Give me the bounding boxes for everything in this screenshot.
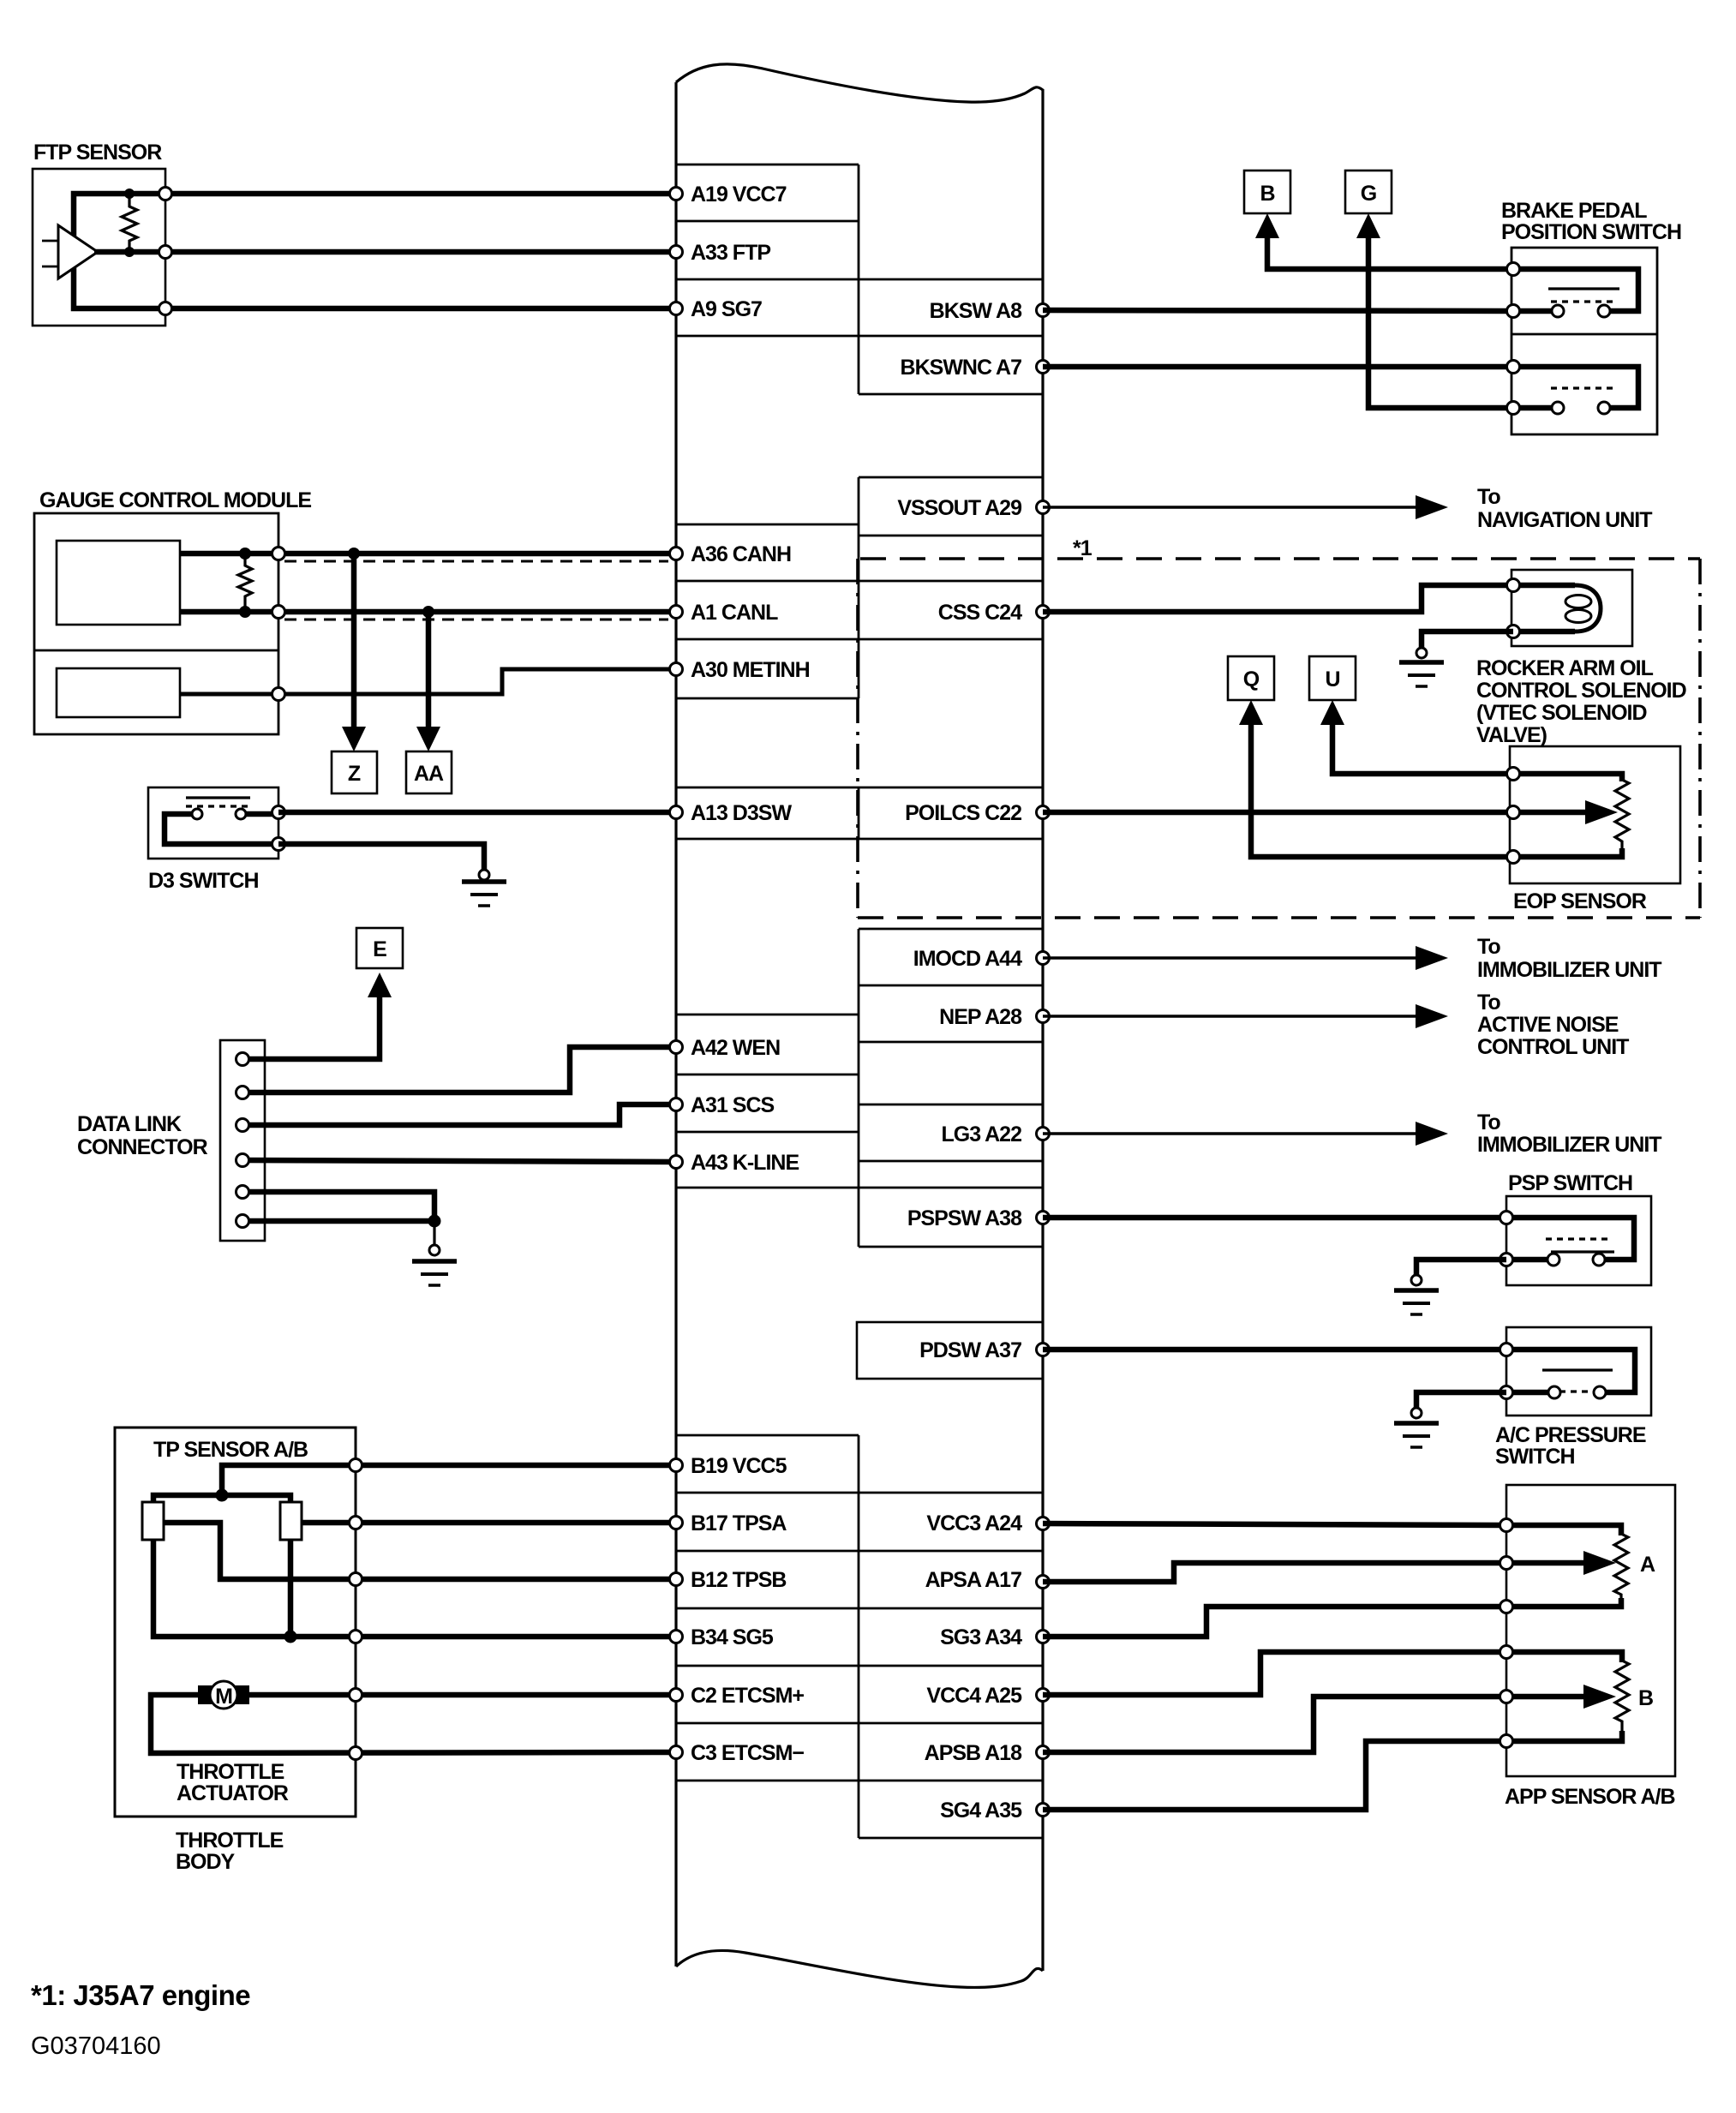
brake pedal position switch box — [1512, 248, 1657, 434]
ECM connector band outline — [676, 64, 1043, 1988]
svg-text:ACTIVE NOISE: ACTIVE NOISE — [1477, 1013, 1619, 1037]
wire A1 CANL — [180, 609, 676, 615]
dash-dot J35A7 region left edge — [856, 559, 859, 918]
svg-text:NAVIGATION UNIT: NAVIGATION UNIT — [1477, 508, 1652, 532]
arrowhead AA — [416, 727, 440, 751]
arrowhead Z — [342, 727, 366, 751]
FTP sensor internal loop wire — [74, 194, 165, 308]
arrowhead NEP — [1416, 1004, 1448, 1028]
connector E box — [356, 928, 403, 968]
wire PSP switch to ground — [1416, 1260, 1506, 1275]
op-amp input leads — [42, 241, 57, 266]
svg-text:B12 TPSB: B12 TPSB — [691, 1568, 786, 1592]
To IMMOBILIZER UNIT label (LG3) — [1477, 1110, 1661, 1157]
throttle actuator motor M — [198, 1681, 249, 1709]
arrowhead G — [1356, 213, 1380, 238]
wire B12 TPSB internal — [164, 1523, 676, 1579]
svg-text:SG3 A34: SG3 A34 — [940, 1625, 1022, 1649]
svg-text:TP SENSOR A/B: TP SENSOR A/B — [153, 1438, 308, 1462]
rocker arm oil control solenoid box — [1512, 570, 1632, 646]
svg-text:U: U — [1325, 667, 1339, 691]
svg-text:A43 K-LINE: A43 K-LINE — [691, 1151, 799, 1175]
svg-text:LG3 A22: LG3 A22 — [941, 1122, 1021, 1146]
svg-text:NEP A28: NEP A28 — [939, 1005, 1022, 1029]
connector AA box — [406, 751, 452, 793]
wire B17 TPSA — [302, 1520, 676, 1526]
wire CSS C24 — [1043, 585, 1513, 612]
svg-text:A36 CANH: A36 CANH — [691, 542, 791, 566]
svg-text:EOP SENSOR: EOP SENSOR — [1513, 889, 1647, 913]
svg-text:BKSW A8: BKSW A8 — [930, 299, 1022, 323]
solenoid coil — [1513, 585, 1601, 632]
arrowhead Q — [1239, 700, 1263, 725]
dashed CANH (J35A7) — [284, 560, 668, 563]
wire A19 VCC7 — [165, 191, 676, 197]
gauge module pins — [272, 548, 285, 560]
wire to G connector — [1368, 231, 1513, 408]
wire POILCS C22 — [1043, 810, 1510, 816]
svg-text:CONTROL SOLENOID: CONTROL SOLENOID — [1476, 679, 1686, 703]
svg-text:VALVE): VALVE) — [1476, 723, 1547, 747]
wire IMOCD A44 — [1043, 956, 1422, 960]
ground (D3 switch) — [462, 870, 506, 906]
svg-text:PDSW A37: PDSW A37 — [919, 1338, 1021, 1362]
APP potentiometer A — [1506, 1525, 1655, 1607]
svg-text:ACTUATOR: ACTUATOR — [177, 1781, 289, 1805]
PSP switch internals — [1506, 1218, 1634, 1266]
svg-text:PSPSW A38: PSPSW A38 — [907, 1206, 1022, 1230]
FTP sensor pins — [159, 188, 172, 201]
EOP potentiometer — [1510, 774, 1629, 857]
TP sensor top rail — [153, 1495, 290, 1505]
svg-text:B: B — [1260, 182, 1274, 206]
dashed J35A7 region top edge — [860, 557, 1700, 560]
ground (solenoid) — [1399, 648, 1444, 686]
svg-text:IMOCD A44: IMOCD A44 — [913, 947, 1022, 971]
wire A13 D3SW — [278, 810, 676, 816]
svg-text:To: To — [1477, 935, 1500, 959]
ECM pin box grid group 2 (VSSOUT/A36/A1/CSS/A30) — [676, 477, 1043, 698]
brake switch 2 internals — [1513, 367, 1638, 414]
FTP sensor op-amp triangle — [58, 225, 98, 278]
wire A31 SCS — [242, 1104, 676, 1125]
svg-text:B: B — [1638, 1686, 1653, 1710]
wire BKSW A8 — [1043, 310, 1513, 311]
EOP sensor box — [1510, 746, 1680, 883]
dashed J35A7 region bottom edge — [858, 916, 1700, 919]
wire A36 CANH — [180, 551, 676, 557]
wire A/C switch to ground — [1416, 1392, 1506, 1408]
wire B19 VCC5 internal — [222, 1465, 676, 1495]
arrowhead U — [1320, 700, 1344, 725]
svg-text:BODY: BODY — [176, 1850, 236, 1874]
svg-text:THROTTLE: THROTTLE — [176, 1829, 284, 1853]
ECM pin box grid group 3 (A13/POILCS) — [676, 787, 1043, 839]
ECM pin labels right column — [897, 299, 1022, 1823]
PSP switch box — [1506, 1196, 1651, 1285]
svg-text:E: E — [373, 937, 386, 961]
connector Z box — [332, 751, 377, 793]
svg-text:A30 METINH: A30 METINH — [691, 658, 810, 682]
data link connector box — [220, 1040, 265, 1241]
gauge module inner box 1 — [57, 541, 180, 625]
wire SG4 A35 — [1043, 1741, 1506, 1810]
wire to Z connector — [351, 554, 357, 730]
wire VCC4 A25 — [1043, 1652, 1506, 1695]
svg-text:*1: J35A7 engine: *1: J35A7 engine — [31, 1979, 250, 2011]
svg-text:IMMOBILIZER UNIT: IMMOBILIZER UNIT — [1477, 958, 1661, 982]
svg-text:DATA LINK: DATA LINK — [77, 1112, 182, 1136]
arrowhead IMOCD — [1416, 946, 1448, 970]
D3 switch box — [148, 787, 278, 859]
To ACTIVE NOISE CONTROL UNIT label — [1477, 991, 1629, 1059]
A/C PRESSURE SWITCH label — [1495, 1423, 1646, 1469]
arrowhead B — [1255, 213, 1279, 238]
arrowhead VSSOUT — [1416, 495, 1448, 519]
svg-text:CONTROL UNIT: CONTROL UNIT — [1477, 1035, 1629, 1059]
svg-text:G: G — [1361, 182, 1376, 206]
wire A30 METINH — [180, 669, 676, 694]
brake switch 1 internals — [1513, 269, 1638, 317]
svg-text:SG4 A35: SG4 A35 — [940, 1799, 1022, 1823]
ECM pin labels left column — [691, 183, 810, 1765]
svg-text:BRAKE PEDAL: BRAKE PEDAL — [1501, 199, 1647, 223]
svg-text:C2 ETCSM+: C2 ETCSM+ — [691, 1684, 804, 1708]
wire to B connector — [1267, 231, 1513, 269]
dash-dot J35A7 region right edge — [1698, 559, 1702, 918]
wire A42 WEN — [242, 1047, 676, 1092]
ECM pin box grid group 5 (PDSW A37) — [857, 1322, 1043, 1379]
wire BKSWNC A7 — [1043, 364, 1513, 370]
ECM right edge pins — [1037, 304, 1050, 1817]
svg-text:To: To — [1477, 485, 1500, 509]
wire A43 K-LINE — [242, 1160, 676, 1162]
svg-text:A33 FTP: A33 FTP — [691, 241, 770, 265]
wire to AA connector — [426, 612, 432, 730]
gauge module inner box 2 — [57, 668, 180, 717]
DLC ground branch wires — [242, 1192, 434, 1221]
svg-text:M: M — [215, 1685, 232, 1709]
wire APSB A18 — [1043, 1697, 1506, 1752]
APP potentiometer B — [1506, 1652, 1653, 1741]
TP sensor element A — [142, 1502, 164, 1540]
svg-text:Z: Z — [348, 762, 361, 786]
dashed CANL (J35A7) — [284, 619, 668, 621]
wire D3 switch to ground — [278, 844, 484, 870]
wire EOP to Q connector — [1251, 720, 1513, 857]
ground (A/C switch) — [1394, 1408, 1439, 1447]
connector U box — [1309, 656, 1356, 700]
wire PDSW A37 — [1043, 1347, 1506, 1353]
wire DLC to E connector — [242, 994, 380, 1059]
svg-text:A13 D3SW: A13 D3SW — [691, 801, 792, 825]
wire A9 SG7 — [165, 306, 676, 312]
FTP internal resistor — [122, 194, 137, 252]
ECM pin box grid group 1 (A19/A33/A9 + BKSW/BKSWNC) — [676, 165, 1043, 394]
connector Q box — [1228, 656, 1274, 700]
wire C2 ETCSM+ — [249, 1692, 676, 1698]
svg-text:PSP SWITCH: PSP SWITCH — [1508, 1171, 1632, 1195]
svg-text:Q: Q — [1243, 667, 1260, 691]
svg-text:VCC3 A24: VCC3 A24 — [926, 1511, 1022, 1535]
arrowhead LG3 — [1416, 1122, 1448, 1146]
ECM left edge pins — [670, 188, 683, 1759]
svg-text:SWITCH: SWITCH — [1495, 1445, 1575, 1469]
junction dot AA on CANL — [422, 606, 434, 618]
svg-text:APP SENSOR A/B: APP SENSOR A/B — [1505, 1785, 1675, 1809]
arrowhead E — [368, 973, 392, 997]
svg-text:A19 VCC7: A19 VCC7 — [691, 183, 787, 207]
svg-text:AA: AA — [414, 762, 444, 786]
svg-text:ROCKER ARM OIL: ROCKER ARM OIL — [1476, 656, 1654, 680]
svg-text:*1: *1 — [1073, 536, 1092, 560]
svg-text:To: To — [1477, 1110, 1500, 1134]
PSP switch pins — [1500, 1212, 1513, 1224]
junction dot Z on CANH — [348, 548, 360, 560]
svg-text:CSS C24: CSS C24 — [938, 601, 1022, 625]
svg-text:C3 ETCSM−: C3 ETCSM− — [691, 1741, 804, 1765]
svg-text:To: To — [1477, 991, 1500, 1015]
TP/throttle pins on box edge — [350, 1459, 362, 1760]
D3 switch pins — [272, 806, 285, 819]
THROTTLE ACTUATOR label — [177, 1760, 289, 1805]
svg-text:A1 CANL: A1 CANL — [691, 601, 778, 625]
svg-text:POSITION SWITCH: POSITION SWITCH — [1501, 220, 1681, 244]
ROCKER ARM OIL CONTROL SOLENOID label — [1476, 656, 1686, 747]
DLC pins — [236, 1053, 249, 1228]
svg-text:A9 SG7: A9 SG7 — [691, 297, 762, 321]
svg-text:G03704160: G03704160 — [31, 2032, 161, 2060]
brake switch pins — [1507, 263, 1520, 415]
D3 switch contacts — [192, 809, 202, 819]
solenoid pins — [1507, 579, 1520, 592]
svg-text:A31 SCS: A31 SCS — [691, 1093, 775, 1117]
BRAKE PEDAL POSITION SWITCH label — [1501, 199, 1681, 244]
DATA LINK CONNECTOR label — [77, 1112, 208, 1159]
wire NEP A28 — [1043, 1015, 1422, 1018]
wire C3 ETCSM- loop — [151, 1695, 676, 1753]
To NAVIGATION UNIT label — [1477, 485, 1652, 532]
gauge module terminating resistor — [238, 554, 252, 612]
svg-text:B19 VCC5: B19 VCC5 — [691, 1454, 787, 1478]
FTP sensor box — [33, 169, 165, 326]
wire A33 FTP — [165, 249, 676, 255]
svg-text:A/C PRESSURE: A/C PRESSURE — [1495, 1423, 1646, 1447]
svg-text:A: A — [1640, 1553, 1655, 1577]
wire PSPSW A38 — [1043, 1215, 1506, 1221]
svg-text:VSSOUT A29: VSSOUT A29 — [897, 496, 1021, 520]
svg-text:IMMOBILIZER UNIT: IMMOBILIZER UNIT — [1477, 1133, 1661, 1157]
svg-text:APSB A18: APSB A18 — [925, 1741, 1022, 1765]
wire APSA A17 — [1043, 1563, 1506, 1582]
svg-text:VCC4 A25: VCC4 A25 — [926, 1684, 1022, 1708]
D3 switch contact bar — [186, 796, 250, 799]
svg-text:D3 SWITCH: D3 SWITCH — [148, 869, 259, 893]
A/C switch pins — [1500, 1344, 1513, 1356]
wire B34 SG5 + element legs — [153, 1540, 676, 1637]
svg-text:BKSWNC A7: BKSWNC A7 — [901, 356, 1022, 380]
ground (data link connector) — [412, 1245, 457, 1285]
connector G box — [1345, 171, 1392, 213]
svg-text:FTP SENSOR: FTP SENSOR — [33, 141, 162, 165]
wire SG3 A34 — [1043, 1607, 1506, 1637]
A/C switch internals — [1506, 1350, 1635, 1398]
svg-text:CONNECTOR: CONNECTOR — [77, 1135, 208, 1159]
svg-text:A42 WEN: A42 WEN — [691, 1036, 780, 1060]
wire EOP to U connector — [1332, 720, 1513, 774]
To IMMOBILIZER UNIT label (IMOCD) — [1477, 935, 1661, 982]
svg-text:THROTTLE: THROTTLE — [177, 1760, 284, 1784]
op-amp output wire — [94, 249, 165, 255]
ECM pin box grid group 4 (IMOCD/NEP/A42/A31/LG3/A43/PSPSW) — [676, 929, 1043, 1247]
wire LG3 A22 — [1043, 1132, 1422, 1135]
throttle body box — [115, 1428, 356, 1817]
svg-text:GAUGE CONTROL MODULE: GAUGE CONTROL MODULE — [39, 488, 311, 512]
ground (PSP switch) — [1394, 1275, 1439, 1314]
THROTTLE BODY label — [176, 1829, 284, 1874]
svg-text:B17 TPSA: B17 TPSA — [691, 1511, 787, 1535]
wire VSSOUT A29 — [1043, 506, 1422, 509]
wire solenoid to ground — [1422, 632, 1513, 648]
D3 switch internal wires — [165, 814, 278, 844]
APP sensor box — [1506, 1485, 1675, 1776]
svg-text:B34 SG5: B34 SG5 — [691, 1625, 774, 1649]
EOP sensor pins — [1507, 768, 1520, 864]
A/C pressure switch box — [1506, 1327, 1651, 1416]
ECM pin box grid group 6 (B19..C3 / VCC3..SG4) — [676, 1435, 1043, 1838]
gauge control module box — [34, 513, 278, 734]
svg-text:POILCS C22: POILCS C22 — [905, 801, 1021, 825]
connector B box — [1244, 171, 1290, 213]
APP sensor pins — [1500, 1519, 1513, 1748]
TP sensor element B — [280, 1502, 302, 1540]
D3 switch dashed contact — [186, 805, 250, 807]
svg-text:APSA A17: APSA A17 — [925, 1568, 1022, 1592]
wire VCC3 A24 — [1043, 1523, 1506, 1525]
svg-text:(VTEC SOLENOID: (VTEC SOLENOID — [1476, 701, 1647, 725]
